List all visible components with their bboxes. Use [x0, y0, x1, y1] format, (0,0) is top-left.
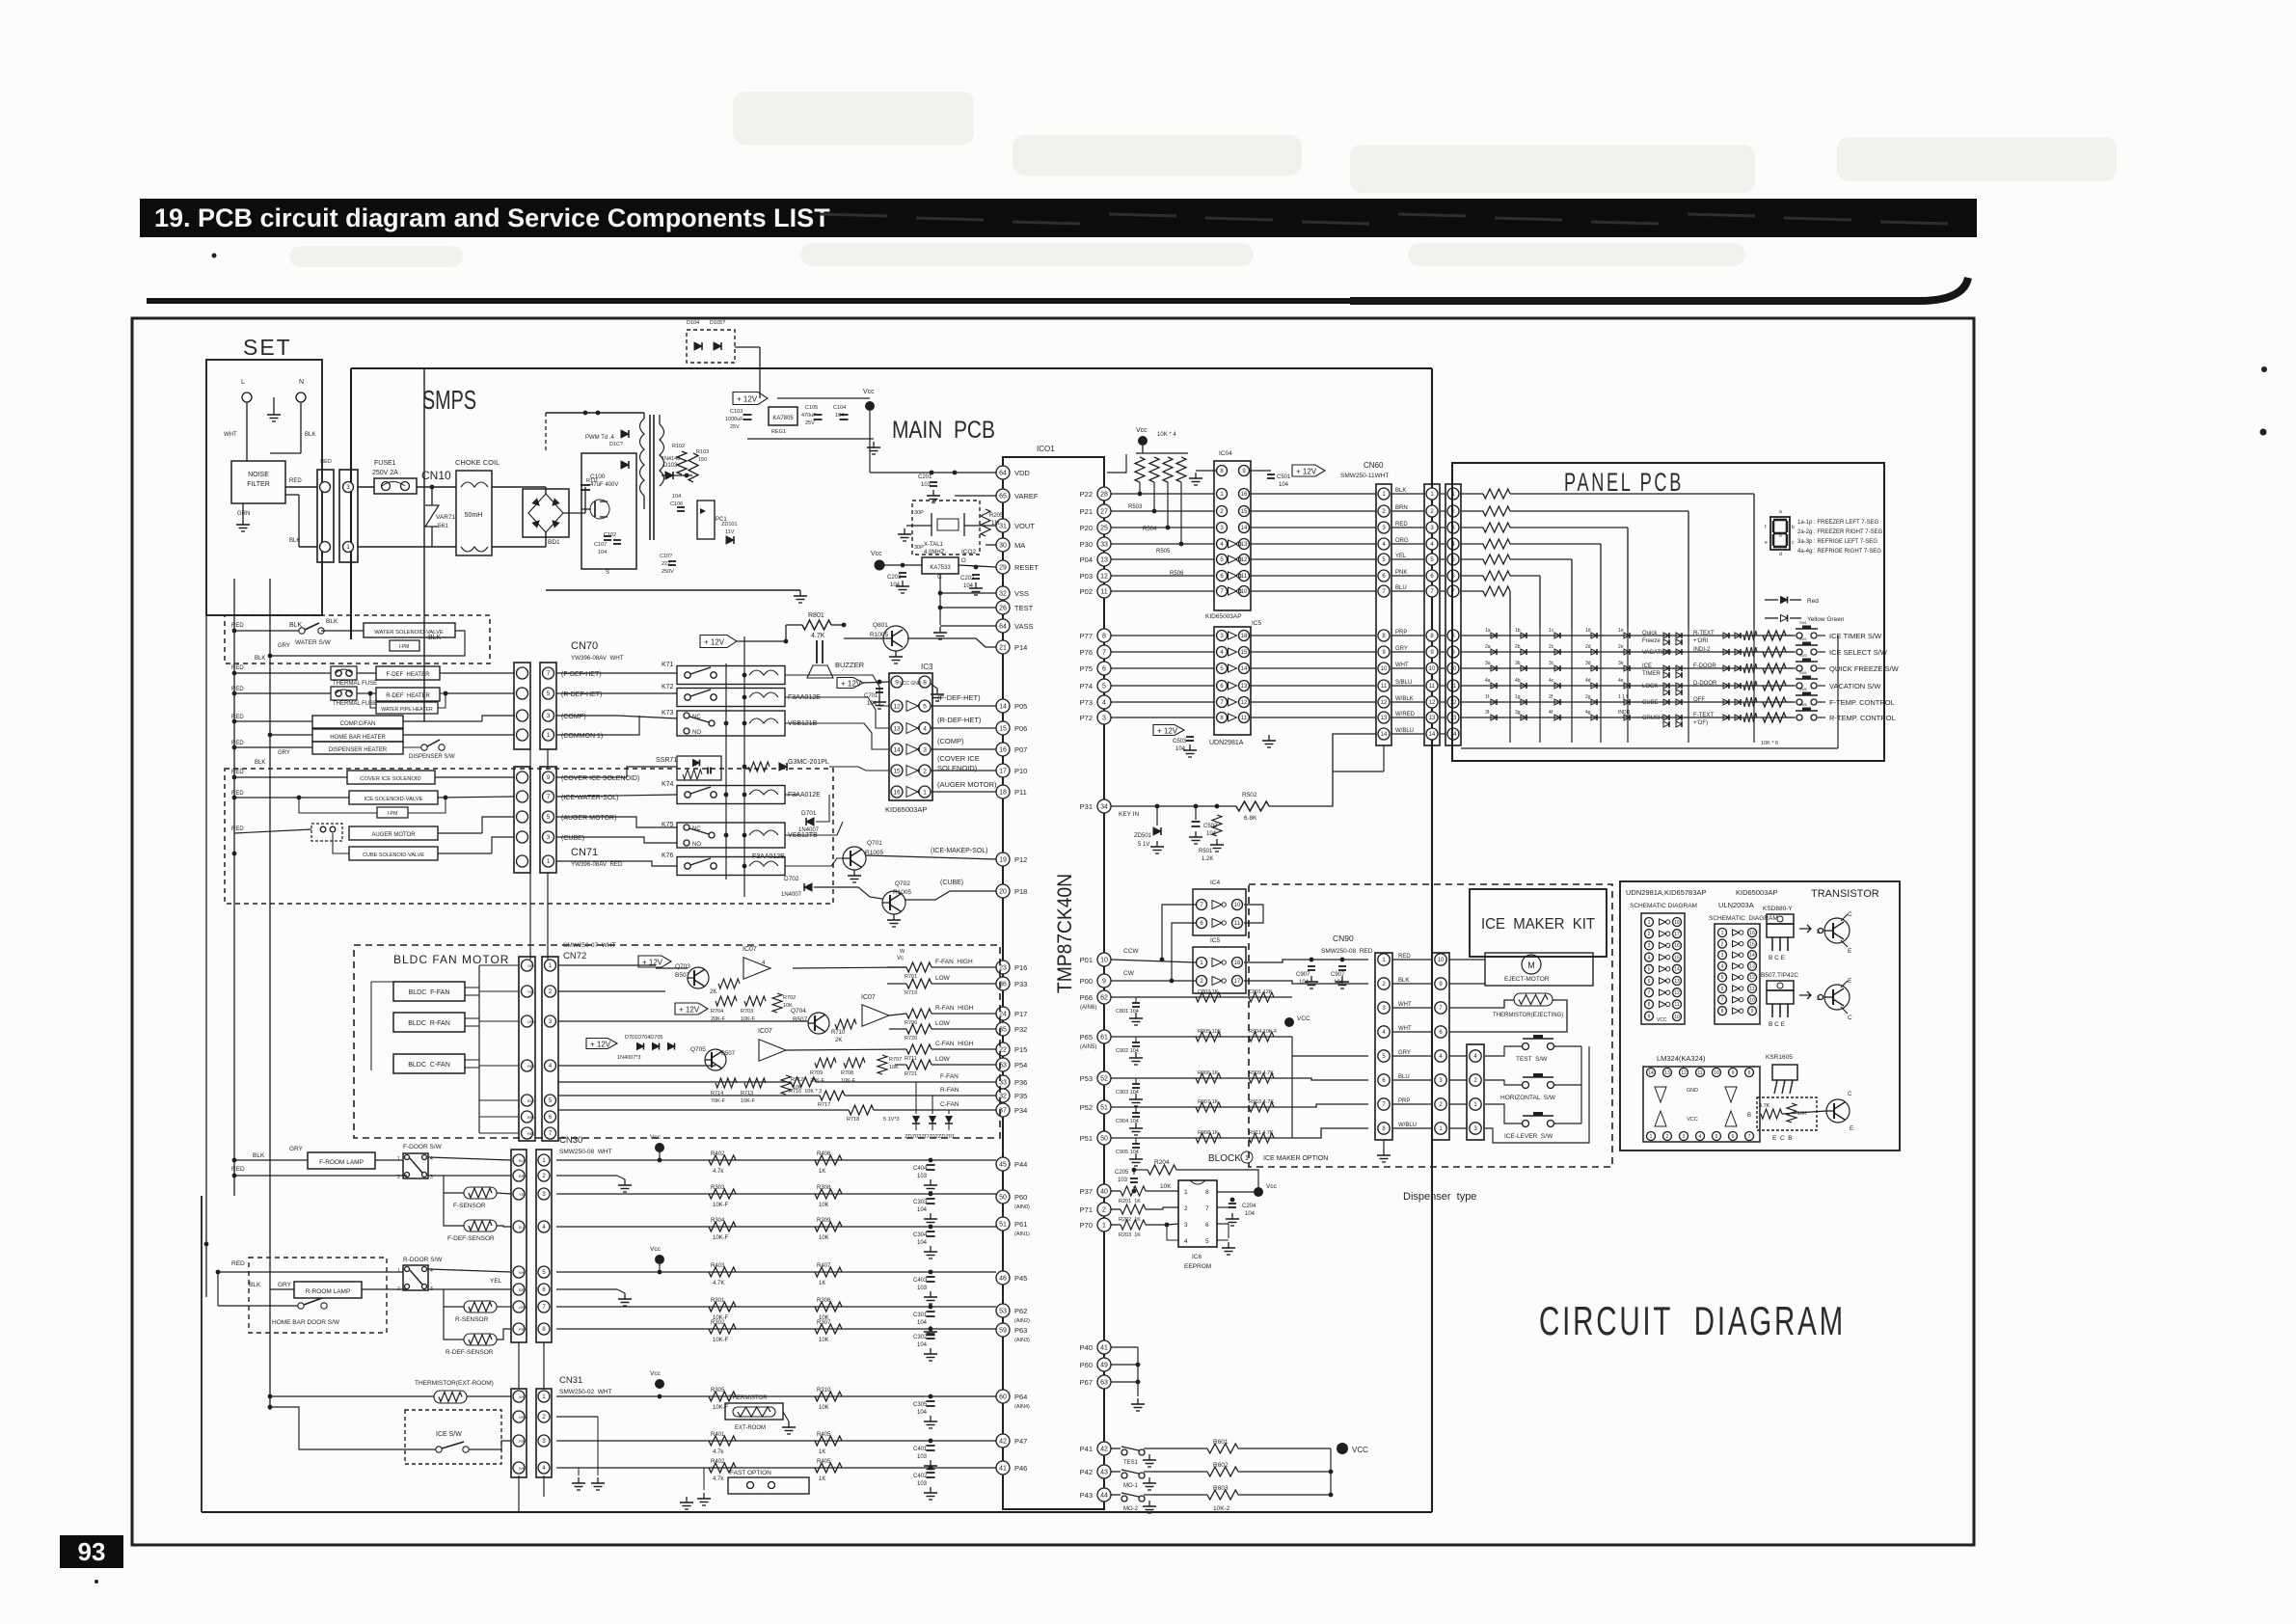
- svg-text:16: 16: [1674, 943, 1680, 949]
- svg-text:Vcc: Vcc: [1136, 427, 1148, 434]
- svg-text:R506: R506: [1170, 571, 1184, 577]
- svg-text:R708: R708: [841, 1070, 853, 1076]
- svg-text:11: 11: [1234, 921, 1241, 927]
- svg-text:+ 12V: + 12V: [737, 395, 758, 404]
- svg-text:R403: R403: [711, 1263, 725, 1269]
- svg-text:I-PM: I-PM: [388, 811, 398, 817]
- svg-text:8: 8: [1721, 1009, 1724, 1015]
- svg-text:104: 104: [890, 582, 901, 588]
- svg-text:R303: R303: [711, 1185, 725, 1191]
- svg-text:R711: R711: [905, 1056, 917, 1062]
- svg-text:1: 1: [1102, 1223, 1106, 1230]
- svg-text:14: 14: [1450, 732, 1457, 738]
- svg-text:FILTER: FILTER: [247, 481, 270, 488]
- svg-text:64: 64: [999, 624, 1007, 631]
- svg-text:SMW250-08 RED: SMW250-08 RED: [1321, 948, 1373, 955]
- svg-text:Vcc: Vcc: [863, 389, 875, 395]
- svg-text:b: b: [1792, 525, 1795, 530]
- svg-text:ZD501: ZD501: [1134, 833, 1152, 839]
- svg-text:P62: P62: [1014, 1307, 1027, 1315]
- svg-text:R305: R305: [711, 1388, 725, 1394]
- svg-text:R717: R717: [818, 1102, 830, 1108]
- svg-text:3f: 3f: [1485, 710, 1490, 716]
- svg-text:P21: P21: [1080, 507, 1093, 516]
- svg-text:EXT-ROOM: EXT-ROOM: [735, 1425, 766, 1431]
- svg-text:ICE MAKER KIT: ICE MAKER KIT: [1481, 916, 1595, 933]
- svg-text:DISPENSER HEATER: DISPENSER HEATER: [329, 747, 388, 753]
- svg-text:DISPENSER S/W: DISPENSER S/W: [409, 754, 455, 760]
- svg-text:10K: 10K: [1160, 1183, 1172, 1190]
- svg-text:(AIN5): (AIN5): [1080, 1044, 1096, 1050]
- svg-text:15: 15: [1241, 509, 1248, 515]
- svg-text:G3MC-201PL: G3MC-201PL: [788, 759, 829, 766]
- svg-text:14: 14: [1749, 953, 1755, 959]
- svg-text:e: e: [1765, 540, 1768, 546]
- svg-text:F-DEF HEATER: F-DEF HEATER: [387, 672, 431, 678]
- svg-text:250V 2A: 250V 2A: [372, 470, 398, 476]
- svg-text:13: 13: [1241, 542, 1248, 548]
- svg-text:61: 61: [1100, 1035, 1108, 1042]
- svg-text:K73: K73: [662, 710, 674, 717]
- svg-text:R504: R504: [1143, 527, 1157, 532]
- svg-text:P47: P47: [1014, 1437, 1027, 1446]
- svg-text:QUICK FREEZE S/W: QUICK FREEZE S/W: [1829, 664, 1900, 673]
- svg-text:12: 12: [1381, 700, 1388, 706]
- svg-text:R702: R702: [783, 995, 796, 1001]
- svg-text:103: 103: [917, 1286, 928, 1291]
- svg-text:+ 12V: + 12V: [1157, 727, 1178, 736]
- svg-text:C303: C303: [913, 1200, 928, 1205]
- svg-text:1K: 1K: [819, 1281, 825, 1286]
- svg-text:SW3: SW3: [1799, 654, 1807, 658]
- svg-text:1f: 1f: [1485, 694, 1490, 700]
- svg-text:RED: RED: [527, 1064, 536, 1069]
- svg-text:EEPROM: EEPROM: [1184, 1263, 1211, 1270]
- svg-text:1c: 1c: [1549, 628, 1554, 634]
- svg-text:2K: 2K: [710, 989, 716, 995]
- svg-text:20: 20: [999, 889, 1007, 896]
- svg-text:103: 103: [917, 1174, 928, 1179]
- svg-text:BRN: BRN: [519, 1174, 527, 1178]
- svg-text:11: 11: [1241, 574, 1248, 580]
- svg-text:Dispenser type: Dispenser type: [1403, 1191, 1476, 1203]
- svg-text:15: 15: [1674, 955, 1680, 961]
- svg-text:K71: K71: [662, 662, 674, 668]
- svg-text:B C E: B C E: [1769, 1021, 1786, 1028]
- svg-text:CN90: CN90: [1333, 934, 1354, 943]
- svg-text:Vcc: Vcc: [871, 551, 882, 557]
- svg-text:E: E: [1848, 978, 1852, 985]
- svg-text:4: 4: [1721, 964, 1724, 970]
- svg-text:4.7K: 4.7K: [811, 633, 825, 639]
- svg-text:B507: B507: [721, 1051, 736, 1057]
- svg-text:C902 104: C902 104: [1116, 1048, 1139, 1054]
- svg-text:1: 1: [1245, 1155, 1249, 1162]
- svg-text:WHT: WHT: [1398, 1002, 1412, 1008]
- svg-text:C903 104: C903 104: [1116, 1090, 1139, 1096]
- svg-text:32: 32: [999, 591, 1007, 598]
- svg-text:P71: P71: [1080, 1205, 1093, 1214]
- svg-text:C302: C302: [913, 1335, 928, 1340]
- svg-text:KA7805: KA7805: [772, 416, 794, 421]
- svg-text:P41: P41: [1080, 1445, 1093, 1453]
- svg-text:M: M: [1527, 961, 1535, 970]
- svg-text:C403: C403: [913, 1278, 928, 1284]
- svg-text:3g: 3g: [1515, 710, 1521, 716]
- svg-text:103: 103: [917, 1454, 928, 1460]
- svg-text:B507: B507: [793, 1016, 808, 1023]
- svg-text:8: 8: [1205, 1189, 1209, 1196]
- svg-text:49: 49: [1100, 1363, 1108, 1369]
- svg-text:CUBE: CUBE: [1642, 700, 1659, 706]
- svg-text:10: 10: [1674, 1015, 1680, 1020]
- svg-text:W/BLK: W/BLK: [1395, 696, 1414, 702]
- svg-text:(AIN4): (AIN4): [1014, 1404, 1030, 1410]
- svg-text:11: 11: [1674, 1002, 1679, 1008]
- svg-text:6: 6: [1102, 666, 1106, 673]
- svg-text:FUSE1: FUSE1: [374, 460, 396, 467]
- svg-text:10: 10: [1234, 903, 1241, 908]
- svg-text:LOW: LOW: [935, 975, 951, 982]
- svg-text:C907: C907: [1296, 972, 1310, 978]
- svg-text:R503: R503: [1128, 504, 1143, 510]
- svg-text:(COMP): (COMP): [937, 737, 964, 745]
- svg-text:R707: R707: [889, 1057, 902, 1063]
- svg-text:R-FAN HIGH: R-FAN HIGH: [935, 1005, 974, 1012]
- svg-text:5: 5: [1102, 684, 1106, 690]
- svg-text:R502: R502: [1242, 792, 1257, 798]
- svg-text:P61: P61: [1014, 1220, 1027, 1229]
- svg-text:(COVER ICE SOLENOID): (COVER ICE SOLENOID): [561, 775, 639, 782]
- svg-text:R308: R308: [817, 1185, 831, 1191]
- svg-text:2d: 2d: [1585, 644, 1591, 650]
- svg-text:BLK: BLK: [326, 618, 338, 625]
- svg-text:14: 14: [1429, 732, 1436, 738]
- svg-text:+ 12V: + 12V: [590, 1041, 611, 1049]
- svg-text:LM324(KA324): LM324(KA324): [1657, 1054, 1706, 1063]
- svg-text:Vcc: Vcc: [650, 1370, 662, 1377]
- svg-text:2K: 2K: [835, 1038, 842, 1043]
- svg-text:VAR71: VAR71: [436, 514, 455, 521]
- svg-text:C304: C304: [913, 1232, 928, 1238]
- svg-text:COVER ICE SOLENOID: COVER ICE SOLENOID: [360, 776, 420, 782]
- svg-text:B: B: [1747, 1113, 1751, 1119]
- svg-text:34: 34: [1100, 804, 1108, 811]
- svg-text:P40: P40: [1080, 1343, 1093, 1352]
- svg-text:Q702: Q702: [895, 880, 910, 887]
- svg-text:RED: RED: [231, 826, 244, 832]
- svg-text:LOW: LOW: [935, 1020, 951, 1027]
- svg-text:1b: 1b: [1515, 628, 1521, 634]
- svg-text:14: 14: [1241, 526, 1248, 531]
- svg-text:(COVER ICE: (COVER ICE: [937, 754, 980, 763]
- svg-text:R-SENSOR: R-SENSOR: [455, 1316, 489, 1323]
- svg-text:44: 44: [1100, 1493, 1108, 1500]
- svg-text:YEL: YEL: [519, 1192, 527, 1197]
- svg-text:12: 12: [1450, 700, 1457, 706]
- svg-text:31: 31: [999, 524, 1007, 530]
- svg-text:P60: P60: [1014, 1193, 1027, 1202]
- svg-text:K74: K74: [662, 781, 674, 788]
- svg-text:VCC GND: VCC GND: [899, 681, 921, 687]
- svg-text:43: 43: [1100, 1470, 1108, 1476]
- svg-text:P63: P63: [1014, 1326, 1027, 1335]
- svg-text:65: 65: [999, 494, 1007, 501]
- svg-text:BLK: BLK: [255, 656, 265, 662]
- svg-text:P75: P75: [1080, 664, 1093, 673]
- svg-text:21: 21: [999, 645, 1007, 652]
- svg-text:2f: 2f: [1549, 694, 1553, 700]
- svg-text:2g: 2g: [1585, 694, 1591, 700]
- svg-text:KID65003AP: KID65003AP: [1736, 888, 1777, 897]
- svg-text:30P: 30P: [914, 510, 924, 516]
- svg-text:THERMISTOR(EXT-ROOM): THERMISTOR(EXT-ROOM): [415, 1380, 494, 1387]
- svg-text:P20: P20: [1080, 524, 1093, 532]
- svg-text:+ 12V: + 12V: [679, 1006, 700, 1015]
- svg-text:(AIN2): (AIN2): [1014, 1318, 1030, 1324]
- svg-text:CN71: CN71: [571, 847, 598, 858]
- svg-text:104: 104: [917, 1342, 928, 1348]
- svg-text:104: 104: [598, 550, 607, 555]
- svg-text:F-DOOR: F-DOOR: [1693, 663, 1716, 669]
- svg-text:BLK: BLK: [527, 1098, 535, 1103]
- svg-text:6: 6: [1648, 979, 1651, 985]
- svg-text:62: 62: [1100, 995, 1108, 1002]
- svg-text:C105: C105: [805, 405, 818, 411]
- svg-text:WHT: WHT: [1398, 1026, 1412, 1032]
- svg-text:d: d: [1779, 552, 1782, 557]
- svg-text:1N4007: 1N4007: [798, 827, 820, 833]
- svg-text:THERMISTOR: THERMISTOR: [729, 1395, 768, 1401]
- svg-text:YEL: YEL: [490, 1278, 502, 1285]
- svg-text:50: 50: [1100, 1136, 1108, 1143]
- svg-text:D701D704D705: D701D704D705: [625, 1035, 662, 1041]
- svg-text:Red: Red: [1807, 598, 1819, 605]
- svg-text:C404: C404: [913, 1166, 928, 1172]
- svg-text:+ 12V: + 12V: [704, 638, 725, 647]
- svg-text:Q701: Q701: [867, 840, 882, 847]
- svg-text:26: 26: [999, 606, 1007, 612]
- svg-text:R-TEXT: R-TEXT: [1693, 631, 1715, 636]
- svg-text:BLOCK: BLOCK: [1208, 1153, 1241, 1164]
- svg-text:16: 16: [1241, 492, 1248, 498]
- svg-text:12: 12: [1241, 557, 1248, 563]
- svg-text:BLU: BLU: [1398, 1074, 1410, 1080]
- svg-text:104: 104: [1245, 1211, 1256, 1217]
- svg-text:104: 104: [835, 413, 844, 419]
- svg-text:INDI1: INDI1: [1618, 710, 1631, 716]
- svg-text:250V: 250V: [662, 569, 674, 575]
- svg-text:ICE-LEVER S/W: ICE-LEVER S/W: [1504, 1133, 1553, 1140]
- svg-text:BLK: BLK: [253, 1152, 265, 1159]
- svg-text:R801: R801: [808, 612, 824, 619]
- svg-text:15: 15: [1749, 941, 1755, 947]
- svg-text:13: 13: [1749, 964, 1755, 970]
- svg-text:SMW250-11WHT: SMW250-11WHT: [1340, 473, 1389, 479]
- svg-text:28: 28: [1100, 492, 1108, 499]
- svg-text:P22: P22: [1080, 490, 1093, 499]
- svg-text:14: 14: [1381, 732, 1388, 738]
- svg-text:ICO2: ICO2: [961, 549, 977, 555]
- svg-text:BLU: BLU: [1395, 585, 1407, 591]
- svg-text:P16: P16: [1014, 963, 1027, 972]
- svg-text:BLDC R-FAN: BLDC R-FAN: [408, 1020, 450, 1027]
- svg-text:E: E: [1850, 1126, 1853, 1132]
- svg-text:4: 4: [1648, 955, 1651, 961]
- svg-text:10K: 10K: [819, 1338, 829, 1343]
- svg-text:3c: 3c: [1549, 661, 1554, 666]
- svg-text:3b: 3b: [1515, 661, 1521, 666]
- svg-text:R302: R302: [711, 1320, 725, 1326]
- svg-text:4f: 4f: [1549, 710, 1553, 716]
- svg-text:15: 15: [1241, 650, 1248, 656]
- svg-text:S: S: [606, 570, 609, 576]
- svg-text:(CUBE): (CUBE): [940, 880, 963, 886]
- svg-text:P66: P66: [1080, 993, 1093, 1002]
- svg-text:ICO1: ICO1: [1037, 445, 1055, 453]
- svg-text:8: 8: [1648, 1002, 1651, 1008]
- svg-text:F-FAN HIGH: F-FAN HIGH: [935, 959, 973, 965]
- svg-text:(F-DEF-HET): (F-DEF-HET): [937, 693, 981, 702]
- svg-text:a: a: [1779, 509, 1782, 515]
- svg-text:R905 10K: R905 10K: [1198, 1029, 1222, 1035]
- svg-text:IC5: IC5: [1252, 620, 1262, 627]
- svg-text:10K: 10K: [819, 1235, 829, 1241]
- svg-text:4.7k: 4.7k: [713, 1449, 724, 1455]
- svg-text:15: 15: [893, 768, 901, 774]
- svg-text:F-DOOR S/W: F-DOOR S/W: [403, 1144, 443, 1150]
- svg-text:3d: 3d: [1585, 661, 1591, 666]
- svg-text:3: 3: [1683, 1134, 1686, 1140]
- svg-text:3: 3: [1184, 1222, 1188, 1229]
- svg-text:IC04: IC04: [1219, 450, 1232, 457]
- svg-text:14: 14: [999, 704, 1007, 711]
- svg-text:7: 7: [1748, 1134, 1751, 1140]
- svg-text:P04: P04: [1080, 555, 1093, 564]
- svg-text:Vcc: Vcc: [1266, 1183, 1278, 1190]
- svg-text:C402: C402: [913, 1474, 928, 1479]
- svg-text:GRN: GRN: [237, 511, 250, 517]
- svg-text:12: 12: [1100, 574, 1108, 581]
- svg-text:R406: R406: [817, 1151, 831, 1157]
- svg-text:16: 16: [893, 789, 901, 796]
- svg-text:(ICE-MAKEP-SOL): (ICE-MAKEP-SOL): [931, 848, 988, 854]
- svg-text:53: 53: [999, 1309, 1007, 1315]
- svg-text:13: 13: [1429, 716, 1436, 721]
- svg-text:Vc: Vc: [897, 956, 904, 961]
- svg-text:4a: 4a: [1485, 678, 1491, 684]
- svg-text:3: 3: [1648, 943, 1651, 949]
- svg-text:15: 15: [999, 726, 1007, 733]
- svg-text:IC07: IC07: [743, 946, 757, 953]
- svg-text:ZD101: ZD101: [721, 522, 738, 528]
- svg-text:51: 51: [999, 1222, 1007, 1229]
- svg-text:CN30: CN30: [559, 1135, 582, 1146]
- svg-text:10K-F: 10K-F: [741, 1098, 756, 1104]
- svg-text:1: 1: [397, 1156, 400, 1162]
- svg-text:16: 16: [999, 747, 1007, 754]
- svg-text:W/RED: W/RED: [1395, 712, 1416, 717]
- svg-text:1: 1: [923, 789, 927, 796]
- svg-text:5: 5: [1721, 975, 1724, 981]
- svg-text:P36: P36: [1014, 1078, 1027, 1087]
- svg-text:ORG: ORG: [519, 1415, 527, 1420]
- svg-text:1N4007: 1N4007: [781, 892, 802, 898]
- svg-text:(COMP): (COMP): [561, 714, 586, 720]
- svg-text:5 1V*3: 5 1V*3: [883, 1117, 900, 1123]
- svg-text:P10: P10: [1014, 767, 1027, 775]
- svg-text:YW396-08AV WHT: YW396-08AV WHT: [571, 655, 624, 662]
- svg-text:CN70: CN70: [571, 640, 598, 652]
- svg-text:P18: P18: [1014, 887, 1027, 896]
- svg-text:TMP87CK40N: TMP87CK40N: [1054, 874, 1076, 993]
- svg-text:11: 11: [1450, 684, 1457, 690]
- svg-text:F-DEF-SENSOR: F-DEF-SENSOR: [447, 1235, 495, 1242]
- svg-text:4e: 4e: [1618, 678, 1624, 684]
- svg-text:P74: P74: [1080, 682, 1093, 690]
- svg-text:VSS: VSS: [1014, 589, 1029, 598]
- svg-text:R405: R405: [817, 1459, 831, 1465]
- svg-text:10K-F: 10K-F: [713, 1203, 729, 1208]
- svg-text:R304: R304: [711, 1218, 725, 1224]
- svg-text:KSR1605: KSR1605: [1766, 1054, 1793, 1061]
- svg-text:470uF: 470uF: [801, 413, 817, 419]
- svg-text:VAREF: VAREF: [1014, 492, 1039, 501]
- svg-text:1a-1p : FREEZER LEFT 7-SEG: 1a-1p : FREEZER LEFT 7-SEG: [1797, 520, 1879, 526]
- svg-text:PRP: PRP: [519, 1439, 527, 1444]
- svg-text:W/BLU: W/BLU: [1395, 728, 1414, 734]
- svg-text:PRP: PRP: [1395, 630, 1407, 636]
- svg-text:19: 19: [999, 857, 1007, 864]
- svg-text:P43: P43: [1080, 1491, 1093, 1500]
- svg-text:SET: SET: [243, 335, 292, 360]
- svg-text:C204: C204: [1242, 1204, 1256, 1209]
- svg-text:7: 7: [1721, 997, 1724, 1003]
- svg-text:KA7533: KA7533: [930, 565, 951, 571]
- svg-text:8: 8: [923, 679, 927, 686]
- svg-text:150: 150: [698, 457, 707, 463]
- svg-text:R602: R602: [1213, 1462, 1229, 1469]
- svg-text:R1005: R1005: [893, 889, 912, 896]
- svg-text:SSR71: SSR71: [656, 757, 677, 764]
- svg-text:4.7K: 4.7K: [713, 1281, 724, 1286]
- svg-text:CN31: CN31: [559, 1375, 582, 1386]
- svg-text:VDD: VDD: [1014, 469, 1030, 477]
- svg-text:P17: P17: [1014, 1010, 1027, 1018]
- svg-text:SW4: SW4: [1799, 671, 1807, 675]
- svg-text:P07: P07: [1014, 745, 1027, 754]
- svg-text:104: 104: [917, 1410, 928, 1416]
- svg-text:INDI-2: INDI-2: [1693, 647, 1711, 653]
- svg-text:R401: R401: [711, 1432, 725, 1438]
- svg-text:11: 11: [1697, 1070, 1702, 1076]
- svg-text:SCHEMATIC DIAGRAM: SCHEMATIC DIAGRAM: [1630, 903, 1697, 909]
- svg-text:FAST OPTION: FAST OPTION: [730, 1470, 771, 1476]
- svg-text:4.0MHZ: 4.0MHZ: [924, 550, 945, 555]
- svg-text:(AIN6): (AIN6): [1080, 1005, 1096, 1011]
- svg-text:30P: 30P: [914, 545, 924, 551]
- svg-text:P42: P42: [1080, 1468, 1093, 1476]
- svg-text:C305: C305: [913, 1402, 928, 1408]
- svg-text:R309: R309: [817, 1218, 831, 1224]
- svg-text:2: 2: [1666, 1134, 1669, 1140]
- svg-text:F-ROOM LAMP: F-ROOM LAMP: [319, 1159, 364, 1166]
- svg-text:P54: P54: [1014, 1061, 1027, 1069]
- svg-text:R-ROOM LAMP: R-ROOM LAMP: [306, 1288, 351, 1295]
- svg-text:42: 42: [1100, 1447, 1108, 1453]
- svg-text:18: 18: [1234, 961, 1241, 966]
- svg-text:1K: 1K: [819, 1449, 825, 1455]
